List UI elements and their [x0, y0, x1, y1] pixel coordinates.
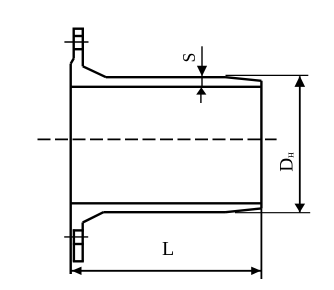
flange collar top stub top cap: [73, 28, 84, 30]
flange collar top stub left edge: [72, 28, 74, 59]
bottom stub left edge: [73, 229, 75, 261]
L left arrowhead: [72, 267, 82, 275]
S dimension lower tail line: [200, 94, 202, 103]
top stub centre tick: [64, 41, 88, 43]
pipe right end face: [260, 81, 262, 209]
left face vertical line / L extension: [69, 64, 71, 274]
pipe top end bevel: [226, 77, 262, 81]
bottom stub middle line: [73, 243, 84, 245]
bottom stub bottom cap: [73, 260, 84, 262]
flange collar top stub middle line: [73, 35, 84, 37]
right extension line for L dimension: [260, 208, 262, 279]
top collar taper diagonal: [83, 66, 106, 77]
pipe bottom outer line: [103, 211, 225, 213]
bottom stub centre tick: [64, 236, 88, 238]
S bottom arrowhead: [196, 87, 206, 94]
pipe top inner line: [71, 86, 262, 88]
bottom stub right edge: [81, 223, 83, 262]
Dn top extension line: [226, 74, 309, 76]
Dn bottom extension line: [235, 212, 310, 214]
flange collar top stub right edge: [82, 28, 84, 67]
left face chamfer: [71, 59, 74, 64]
pipe bottom end bevel: [226, 208, 262, 212]
svg-text:L: L: [162, 238, 174, 260]
centre axis dash line: [38, 138, 277, 140]
pipe top outer line: [106, 76, 226, 78]
Dn top arrowhead: [295, 76, 306, 87]
L right arrowhead: [251, 267, 261, 275]
bottom stub top cap: [73, 229, 84, 231]
svg-text:S: S: [179, 53, 199, 63]
Dn dimension line: [299, 76, 301, 212]
flange collar top stub bottom cap: [73, 48, 84, 50]
bottom collar taper diagonal: [83, 212, 104, 222]
pipe bottom inner line: [71, 202, 262, 204]
S dimension upper leader line: [201, 46, 203, 87]
L dimension line: [71, 270, 262, 272]
S top arrowhead: [197, 66, 207, 76]
Dn bottom arrowhead: [295, 204, 306, 213]
